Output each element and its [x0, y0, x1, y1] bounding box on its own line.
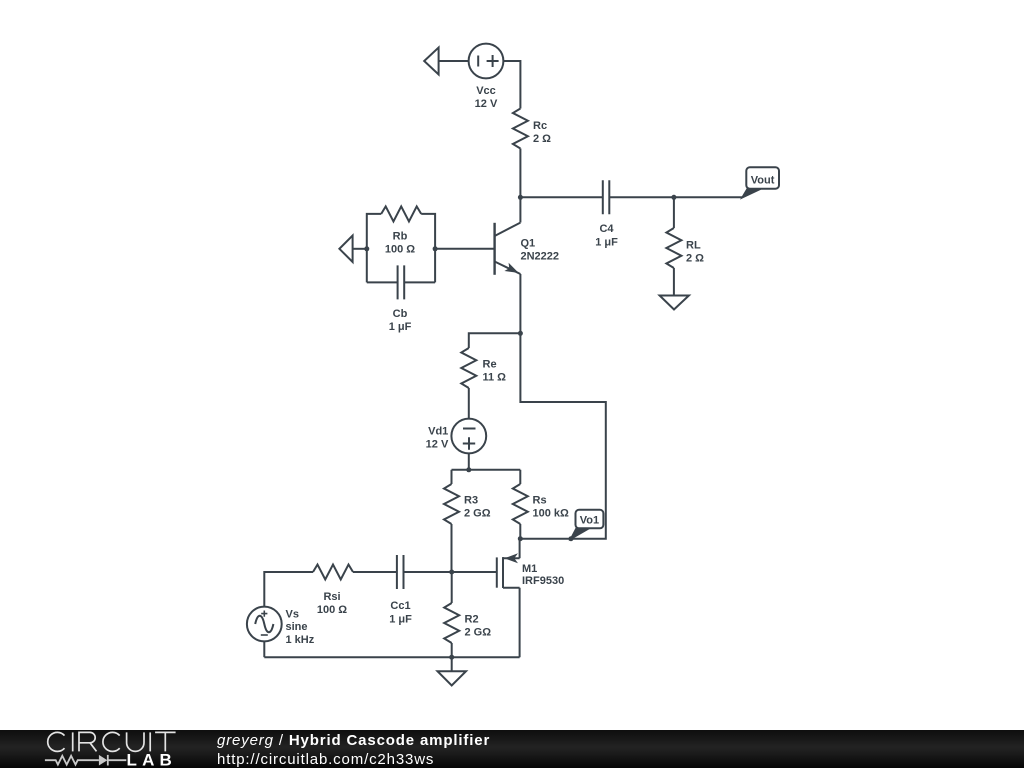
wire source node to M1	[519, 539, 521, 559]
svg-text:2 GΩ: 2 GΩ	[464, 508, 491, 520]
net flag Vout	[743, 167, 780, 197]
voltage source Vd1	[451, 419, 486, 454]
svg-text:R3: R3	[464, 495, 478, 507]
wire rail to Rs	[519, 470, 521, 484]
svg-text:1 kHz: 1 kHz	[286, 634, 315, 646]
wire R2 to bottom rail	[451, 643, 453, 657]
wire Vd1 to bias node	[468, 453, 470, 469]
logo letter I	[72, 732, 74, 751]
node RL top	[671, 195, 676, 200]
wire RL to ground	[673, 268, 675, 296]
svg-text:Cb: Cb	[393, 308, 408, 320]
svg-text:Rc: Rc	[533, 120, 547, 132]
logo letter T	[155, 732, 176, 751]
capacitor C4	[603, 180, 610, 214]
net flag Vo1	[571, 510, 603, 539]
logo letter C	[48, 732, 65, 751]
power flag triangle (Rb left)	[339, 236, 352, 262]
wire emitter node to Re	[469, 333, 521, 348]
Vd1 plus terminal mark	[463, 437, 475, 449]
logo letter I	[149, 732, 151, 751]
svg-text:Vd1: Vd1	[428, 426, 448, 438]
Vs sine symbol	[255, 616, 273, 633]
wire base: Rb node to Q1 base	[435, 248, 495, 250]
svg-text:Re: Re	[483, 359, 497, 371]
wire collector node to C4	[520, 196, 602, 198]
power flag triangle (Vcc left)	[424, 48, 438, 75]
logo letter U	[127, 732, 144, 751]
wire Vs up to Rsi	[264, 572, 313, 607]
wire Vs down to bottom rail	[263, 641, 265, 657]
wire Rs to source node	[519, 524, 521, 539]
node Rb left	[364, 246, 369, 251]
wire Rc to collector node	[519, 149, 521, 198]
svg-text:Rsi: Rsi	[323, 591, 340, 603]
Vd1 minus terminal mark	[463, 428, 476, 430]
svg-text:Vcc: Vcc	[476, 85, 496, 97]
wire flag to Vcc	[439, 60, 469, 62]
CircuitLab logo	[0, 730, 200, 768]
node Vd1 bottom	[466, 467, 471, 472]
svg-text:1 μF: 1 μF	[595, 237, 618, 249]
svg-text:IRF9530: IRF9530	[522, 575, 564, 587]
wire Rb loop right side	[421, 214, 435, 283]
footer text	[217, 731, 490, 769]
voltage source Vcc	[469, 44, 504, 79]
junction dots	[364, 195, 676, 660]
wire flag to Rb loop	[353, 248, 367, 250]
wire Cb left lead	[367, 281, 398, 283]
svg-text:Vs: Vs	[286, 609, 299, 621]
wire RL node down	[673, 197, 675, 228]
ground (bottom)	[438, 671, 467, 685]
wire RL node to Vout flag	[674, 196, 743, 198]
transistor Q1 (NPN 2N2222)	[495, 223, 521, 275]
logo letter R	[79, 732, 97, 751]
node emitter	[518, 331, 523, 336]
svg-text:sine: sine	[286, 621, 308, 633]
wire Re to Vd1	[468, 388, 470, 419]
svg-text:100 Ω: 100 Ω	[317, 604, 347, 616]
node ground rail	[449, 655, 454, 660]
svg-text:12 V: 12 V	[426, 439, 449, 451]
svg-text:2 Ω: 2 Ω	[533, 133, 551, 145]
wire Rsi to Cc1	[353, 571, 397, 573]
resistor Rs	[513, 484, 528, 524]
node Rb right	[433, 246, 438, 251]
svg-text:Rs: Rs	[533, 495, 547, 507]
resistor Rb	[381, 206, 421, 221]
wire bottom rail	[264, 656, 519, 658]
resistor RL	[666, 228, 681, 268]
svg-text:2 Ω: 2 Ω	[686, 253, 704, 265]
svg-text:100 kΩ: 100 kΩ	[533, 508, 570, 520]
svg-text:R2: R2	[465, 614, 479, 626]
Vcc minus terminal mark	[477, 56, 479, 67]
footer bar	[0, 730, 1024, 768]
svg-text:100 Ω: 100 Ω	[385, 244, 415, 256]
svg-text:RL: RL	[686, 240, 701, 252]
node collector	[518, 195, 523, 200]
svg-text:Rb: Rb	[393, 231, 408, 243]
resistor Re	[461, 348, 476, 388]
Vs minus mark	[261, 634, 268, 636]
logo squiggle wire	[45, 755, 126, 766]
logo letter C	[103, 732, 120, 751]
wire rail to ground	[451, 657, 453, 671]
svg-text:1 μF: 1 μF	[389, 614, 412, 626]
Vcc plus terminal mark	[487, 55, 499, 67]
svg-text:Cc1: Cc1	[390, 600, 410, 612]
svg-text:2N2222: 2N2222	[521, 251, 560, 263]
wire bias rail	[452, 469, 521, 471]
svg-text:C4: C4	[599, 223, 614, 235]
wire M1 drain down	[519, 588, 521, 657]
wire feedback loop emitter node to source node	[520, 333, 606, 538]
wire Vcc to Rc	[503, 61, 520, 109]
wire Q1 emitter down to node	[519, 274, 521, 333]
wire gate node down to R2	[451, 572, 453, 603]
svg-text:LAB: LAB	[127, 751, 178, 768]
voltage source Vs (sine)	[247, 607, 282, 642]
wire R3 to gate node	[451, 524, 453, 572]
node gate	[449, 570, 454, 575]
ground (RL)	[660, 296, 689, 310]
svg-text:Vo1: Vo1	[580, 515, 599, 527]
svg-text:1 μF: 1 μF	[389, 321, 412, 333]
wire C4 to RL node	[609, 196, 674, 198]
capacitor Cc1	[397, 555, 404, 589]
svg-text:11 Ω: 11 Ω	[483, 372, 507, 384]
wire rail to R3	[451, 470, 453, 484]
svg-text:M1: M1	[522, 563, 537, 575]
capacitor Cb	[398, 265, 405, 299]
Vs plus mark	[261, 611, 267, 617]
resistor R3	[444, 484, 459, 524]
svg-text:2 GΩ: 2 GΩ	[465, 627, 492, 639]
resistor Rc	[513, 109, 528, 149]
wire Rb loop left side	[367, 214, 381, 283]
svg-text:12 V: 12 V	[475, 98, 498, 110]
wire gate node to M1 gate	[452, 571, 497, 573]
svg-text:Q1: Q1	[521, 238, 536, 250]
logo diode	[99, 755, 108, 766]
resistor R2	[444, 603, 459, 643]
wire Cb right lead	[404, 281, 435, 283]
node Vo1 tap	[569, 536, 574, 541]
wire collector node to Q1 collector	[519, 197, 521, 222]
transistor M1 (PMOS IRF9530)	[497, 553, 520, 588]
wire Cc1 to gate node	[404, 571, 452, 573]
svg-text:Vout: Vout	[751, 174, 775, 186]
resistor Rsi	[313, 565, 353, 580]
node Rs bottom	[518, 536, 523, 541]
